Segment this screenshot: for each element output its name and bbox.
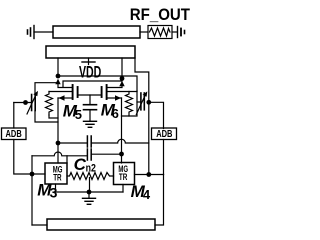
ground (below gate capacitor): [84, 121, 97, 127]
wire M3 source down: [55, 184, 57, 192]
varactor CV1 left (plates): [32, 95, 36, 111]
ground (sideways, left of primary winding): [28, 26, 35, 39]
wire capacitor to ground: [89, 110, 91, 121]
node A junction dot: [56, 74, 61, 79]
node ground rail dot: [87, 190, 92, 195]
transistor M5 (channel bar): [72, 85, 74, 99]
wire M5 source with arrow: [58, 97, 72, 99]
node M6 source rail dot: [119, 152, 124, 157]
svg-text:6: 6: [112, 106, 119, 121]
node left gate line dot: [30, 172, 35, 177]
inductor L2 secondary winding (rectangle): [46, 46, 135, 58]
wire left node down to bottom line: [31, 156, 33, 225]
VDD tap bar: [82, 61, 95, 63]
arrow M5 source (pointing left): [59, 95, 65, 100]
wire ADB right down to gate line: [163, 140, 165, 175]
wire secondary right end to right varactor: [135, 58, 149, 175]
svg-text:5: 5: [75, 107, 82, 122]
svg-text:3: 3: [50, 185, 58, 201]
wire drain rail with capacitor Cn2a: [58, 142, 87, 144]
capacitor C gate bypass (plates): [84, 105, 97, 110]
wire R3 midpoint to ground rail: [89, 178, 91, 193]
varactor CV2 right (plates): [141, 93, 144, 110]
wire M5 drain: [58, 84, 72, 88]
svg-text:TR: TR: [53, 172, 62, 183]
inductor L3 input line (rectangle): [47, 219, 155, 230]
wire dot to ground: [88, 192, 90, 198]
transistor M5 (gate bar): [77, 87, 79, 97]
wire primary to load resistor: [140, 31, 148, 33]
ground (below M3 M4 sources): [83, 198, 96, 204]
wire ground to primary winding: [34, 31, 53, 33]
wire left varactor node to ADB left: [13, 103, 15, 129]
arrow on M5 drain (pointing up to node A): [55, 79, 60, 84]
wire drain rail right with hop over source rail: [91, 139, 149, 143]
svg-text:ADB: ADB: [6, 128, 22, 139]
wire branch to M3 box corner: [66, 156, 68, 163]
inductor L1 primary winding (rectangle): [53, 26, 140, 38]
resistor R3 between M3 M4 gates (zigzag horizontal): [67, 173, 114, 180]
MG TR box left (M3): [45, 163, 67, 184]
wire secondary left end down to node A: [57, 58, 59, 74]
capacitor Cn2 (plates): [87, 149, 91, 160]
wire secondary right end down to node B: [121, 58, 123, 76]
wire lower line left with hop over M5 rail: [32, 152, 87, 156]
wire M6 source with arrow: [107, 97, 122, 99]
wire M6 drain: [107, 86, 122, 88]
wire bottom right to input line: [155, 175, 164, 226]
wire source ground rail: [56, 191, 124, 193]
wire resistor R1 bottom to source rail: [49, 115, 58, 118]
wire node B cross line to left side: [63, 81, 122, 87]
wire ADB left down to gate line: [14, 140, 45, 175]
MG TR box right (M4): [114, 163, 135, 185]
wire node A cross line to right side: [58, 76, 137, 91]
node right gate line dot: [146, 172, 151, 177]
svg-text:VDD: VDD: [79, 62, 101, 81]
transistor M6 (gate bar): [101, 87, 103, 97]
capacitor Cn2a (plates): [87, 136, 91, 147]
wire M6 bulk to resistor: [107, 91, 137, 93]
wire common gate line M5-M6: [78, 94, 102, 96]
svg-text:C: C: [74, 155, 87, 174]
node left varactor dot: [23, 100, 28, 105]
svg-text:4: 4: [143, 187, 151, 202]
wire M6 source rail down: [121, 98, 123, 163]
transistor M6 (channel bar): [106, 85, 108, 99]
wire bottom left to input line: [32, 224, 47, 226]
ground (sideways, RF_OUT termination): [178, 27, 185, 38]
ADB box left: [2, 128, 27, 140]
svg-text:ADB: ADB: [156, 128, 172, 139]
ADB box right: [152, 128, 177, 140]
resistor R1 left (zigzag vertical): [46, 92, 53, 116]
svg-text:RF_OUT: RF_OUT: [130, 7, 191, 25]
resistor RL load (box with zigzag): [148, 26, 172, 39]
wire right tank bottom: [122, 91, 138, 116]
arrow on M6 drain (pointing up to node B): [119, 81, 124, 86]
arrow M6 source (pointing right): [115, 95, 121, 100]
wire right varactor to right ADB: [149, 102, 164, 128]
wire varactor left plate to node: [14, 102, 32, 104]
resistor R2 right (zigzag vertical): [126, 92, 133, 117]
svg-text:TR: TR: [119, 172, 128, 183]
wire resistor to output ground: [172, 31, 177, 33]
wire VDD center tap: [88, 58, 90, 65]
wire left tank top: [35, 83, 58, 95]
arrow varactor CV1 (diagonal): [27, 91, 38, 114]
wire M5 bulk to resistor: [49, 91, 72, 93]
wire varactor CV2 left plate to tank: [137, 101, 141, 103]
wire lower line right to M6 rail: [91, 153, 121, 155]
wire left tank bottom: [35, 111, 58, 123]
node right varactor dot: [146, 100, 151, 105]
wire M4 source down: [122, 185, 124, 193]
wire gate line down to capacitor: [89, 95, 91, 105]
wire M5 source rail down: [57, 98, 59, 163]
arrow varactor CV2 (diagonal): [136, 91, 147, 114]
wire right gate line to MG TR box: [135, 174, 164, 176]
node B junction dot: [120, 76, 125, 81]
node M5 source / drain rail dot: [56, 141, 61, 146]
